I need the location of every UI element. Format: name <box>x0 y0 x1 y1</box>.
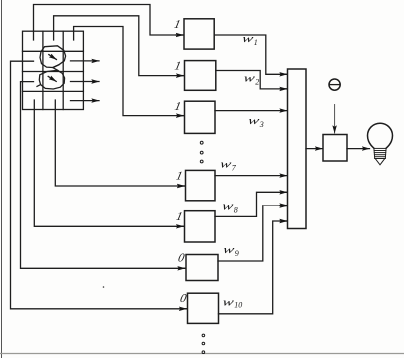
arrow into A2 <box>177 75 184 77</box>
unit box A2 <box>185 61 216 91</box>
svg-text:1: 1 <box>173 59 182 73</box>
retina right arrow row 2 <box>71 60 100 62</box>
arrow w1 into summator <box>280 73 287 75</box>
blob junction notch <box>53 65 59 71</box>
retina grid row line 3 <box>23 90 84 92</box>
wire response unit to lamp <box>347 148 370 150</box>
blob 2 tail <box>37 85 41 87</box>
svg-text:1: 1 <box>173 99 182 113</box>
svg-text:3: 3 <box>259 120 264 129</box>
arrow into A7 <box>178 185 185 187</box>
unit box A7 <box>186 170 216 200</box>
lamp tip <box>375 159 385 165</box>
label w7 <box>219 158 237 172</box>
threshold symbol theta <box>329 79 340 90</box>
lamp bulb globe <box>368 123 393 148</box>
arrow w8 into summator <box>280 191 287 193</box>
wire retina left row2 to unit A10 <box>11 61 187 309</box>
response unit box <box>323 135 347 162</box>
photo arrow in blob 2 <box>48 76 56 81</box>
arrow w2 into summator <box>280 88 287 90</box>
ellipsis dots below A10 <box>202 334 205 353</box>
svg-text:9: 9 <box>235 249 239 258</box>
unit box A8 <box>185 211 216 242</box>
svg-text:7: 7 <box>232 164 237 173</box>
stray ink dot <box>103 286 105 288</box>
label w8 <box>221 200 238 214</box>
svg-text:0: 0 <box>179 291 188 305</box>
wire retina cell(1,1) top to unit A1 <box>34 5 184 41</box>
wire w10 from A10 to summator <box>219 221 288 314</box>
retina right arrow row 3 <box>71 81 100 83</box>
ellipsis dots between A3 and A7 <box>200 141 203 163</box>
wire w9 from A9 to summator <box>218 206 263 261</box>
label w1 <box>241 33 258 47</box>
wire retina cell(1,2) top to unit A2 <box>54 16 184 76</box>
label w2 <box>242 72 259 86</box>
svg-text:8: 8 <box>234 206 238 215</box>
page bottom border <box>0 353 404 355</box>
theta bar <box>330 84 340 86</box>
retina grid outer <box>23 31 84 109</box>
summator box <box>288 69 307 229</box>
unit box A10 <box>188 293 219 323</box>
retina grid row line 1 <box>23 50 84 52</box>
page left border <box>1 0 3 358</box>
arrow into A1 <box>176 34 183 36</box>
wire retina cell(4,2) bottom to unit A7 <box>55 100 184 186</box>
svg-text:1: 1 <box>175 209 184 223</box>
photo arrow in blob 1 <box>49 55 57 60</box>
retina grid column line 2 <box>62 31 64 109</box>
wire w7 from A7 to summator <box>215 175 287 177</box>
wire w3 from A3 to summator <box>215 110 287 112</box>
unit box A1 <box>184 19 214 49</box>
wire summator to response unit <box>306 148 323 150</box>
wire w2 from A2 to summator <box>216 71 287 89</box>
wire retina left row3 to unit A9 <box>21 82 186 269</box>
svg-text:0: 0 <box>177 251 186 265</box>
threshold wire into response unit <box>334 105 336 134</box>
svg-text:10: 10 <box>234 301 242 310</box>
label w9 <box>222 244 239 258</box>
retina right arrow row 4 <box>71 100 100 102</box>
arrow w10 into summator <box>280 220 287 222</box>
label w3 <box>247 115 264 129</box>
svg-text:1: 1 <box>175 169 184 183</box>
arrow into A8 <box>177 225 184 227</box>
wire w1 from A1 to summator <box>214 35 287 74</box>
receptive blob 1 <box>40 46 66 68</box>
svg-text:1: 1 <box>173 17 182 31</box>
receptive blob 2 <box>39 70 64 89</box>
arrow w9 into summator <box>280 205 287 207</box>
label w10 <box>221 296 242 310</box>
svg-text:1: 1 <box>254 38 258 47</box>
wire w8 from A8 to summator <box>215 192 287 216</box>
svg-text:2: 2 <box>255 78 259 87</box>
unit box A3 <box>185 101 216 133</box>
wire retina cell(4,1) bottom to unit A8 <box>34 100 183 226</box>
wire retina cell(1,3) top to unit A3 <box>74 27 184 116</box>
unit box A9 <box>186 255 218 281</box>
lamp screw threads <box>374 148 386 158</box>
arrow into A10 <box>180 308 187 310</box>
arrow into A3 <box>177 115 184 117</box>
retina grid row line 2 <box>23 71 84 73</box>
arrow into A9 <box>178 267 185 269</box>
retina grid column line 1 <box>42 31 44 109</box>
